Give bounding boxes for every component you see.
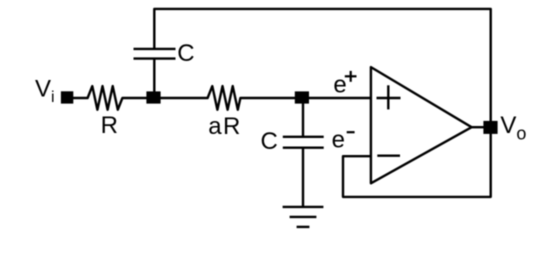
svg-text:e: e [332, 126, 345, 153]
svg-text:aR: aR [208, 113, 241, 140]
svg-text:C: C [261, 128, 278, 155]
svg-text:R: R [101, 112, 118, 139]
svg-text:e: e [333, 71, 346, 98]
svg-text:C: C [177, 40, 194, 67]
